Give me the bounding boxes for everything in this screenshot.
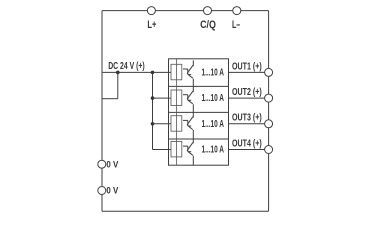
- breaker switch S4: [183, 139, 193, 166]
- svg-text:1...10 A: 1...10 A: [202, 93, 225, 104]
- terminal C/Q: [204, 7, 212, 15]
- wire left rail: [101, 11, 103, 212]
- terminal L+: [147, 7, 155, 15]
- terminal OUT4: [265, 146, 273, 154]
- svg-text:0 V: 0 V: [106, 186, 118, 196]
- terminal 0V lower: [98, 187, 106, 195]
- wire channel 4 input: [153, 149, 172, 151]
- wire supply bus vertical: [152, 72, 154, 149]
- fuse F2: [171, 87, 182, 113]
- divider 2: [169, 111, 229, 113]
- terminal OUT1: [265, 68, 273, 76]
- terminal OUT2: [265, 94, 273, 102]
- module box: [169, 59, 229, 165]
- svg-text:OUT1 (+): OUT1 (+): [232, 61, 262, 72]
- wire channel 1 output: [229, 71, 265, 73]
- svg-text:L–: L–: [232, 19, 240, 31]
- svg-text:OUT3 (+): OUT3 (+): [232, 113, 262, 124]
- wire loop to left rail: [102, 98, 118, 100]
- svg-text:OUT4 (+): OUT4 (+): [232, 138, 262, 149]
- junction dot DC feed: [116, 71, 120, 75]
- breaker switch S2: [183, 86, 193, 112]
- wire channel 2 output: [229, 97, 265, 99]
- svg-text:1...10 A: 1...10 A: [202, 119, 225, 130]
- wire channel 3 input: [153, 123, 172, 125]
- junction dot bus row 2: [151, 96, 155, 100]
- terminal OUT3: [265, 120, 273, 128]
- svg-text:L+: L+: [147, 19, 156, 31]
- svg-text:C/Q: C/Q: [200, 19, 216, 31]
- junction dot bus row 3: [151, 122, 155, 126]
- svg-text:1...10 A: 1...10 A: [202, 68, 225, 79]
- fuse F1: [171, 59, 182, 86]
- wire DC 24V feed: [102, 71, 171, 73]
- svg-text:DC 24 V (+): DC 24 V (+): [108, 61, 145, 72]
- junction dot bus row 1: [151, 71, 155, 75]
- wire right rail: [268, 11, 270, 212]
- wire channel 4 output: [229, 149, 265, 151]
- wire loop down from junction: [117, 72, 119, 98]
- fuse F4: [171, 139, 182, 165]
- wire bottom rail: [102, 210, 269, 212]
- svg-text:1...10 A: 1...10 A: [202, 145, 225, 156]
- wire channel 2 input: [153, 97, 172, 99]
- svg-text:0 V: 0 V: [106, 159, 118, 169]
- divider 3: [169, 138, 229, 140]
- wire top rail: [102, 10, 269, 12]
- terminal 0V upper: [98, 160, 106, 168]
- fuse F3: [171, 113, 182, 139]
- breaker switch S3: [183, 112, 193, 139]
- terminal L-: [233, 7, 241, 15]
- wire channel 3 output: [229, 123, 265, 125]
- breaker switch S1: [183, 60, 193, 86]
- divider 1: [169, 85, 229, 87]
- svg-text:OUT2 (+): OUT2 (+): [232, 87, 262, 98]
